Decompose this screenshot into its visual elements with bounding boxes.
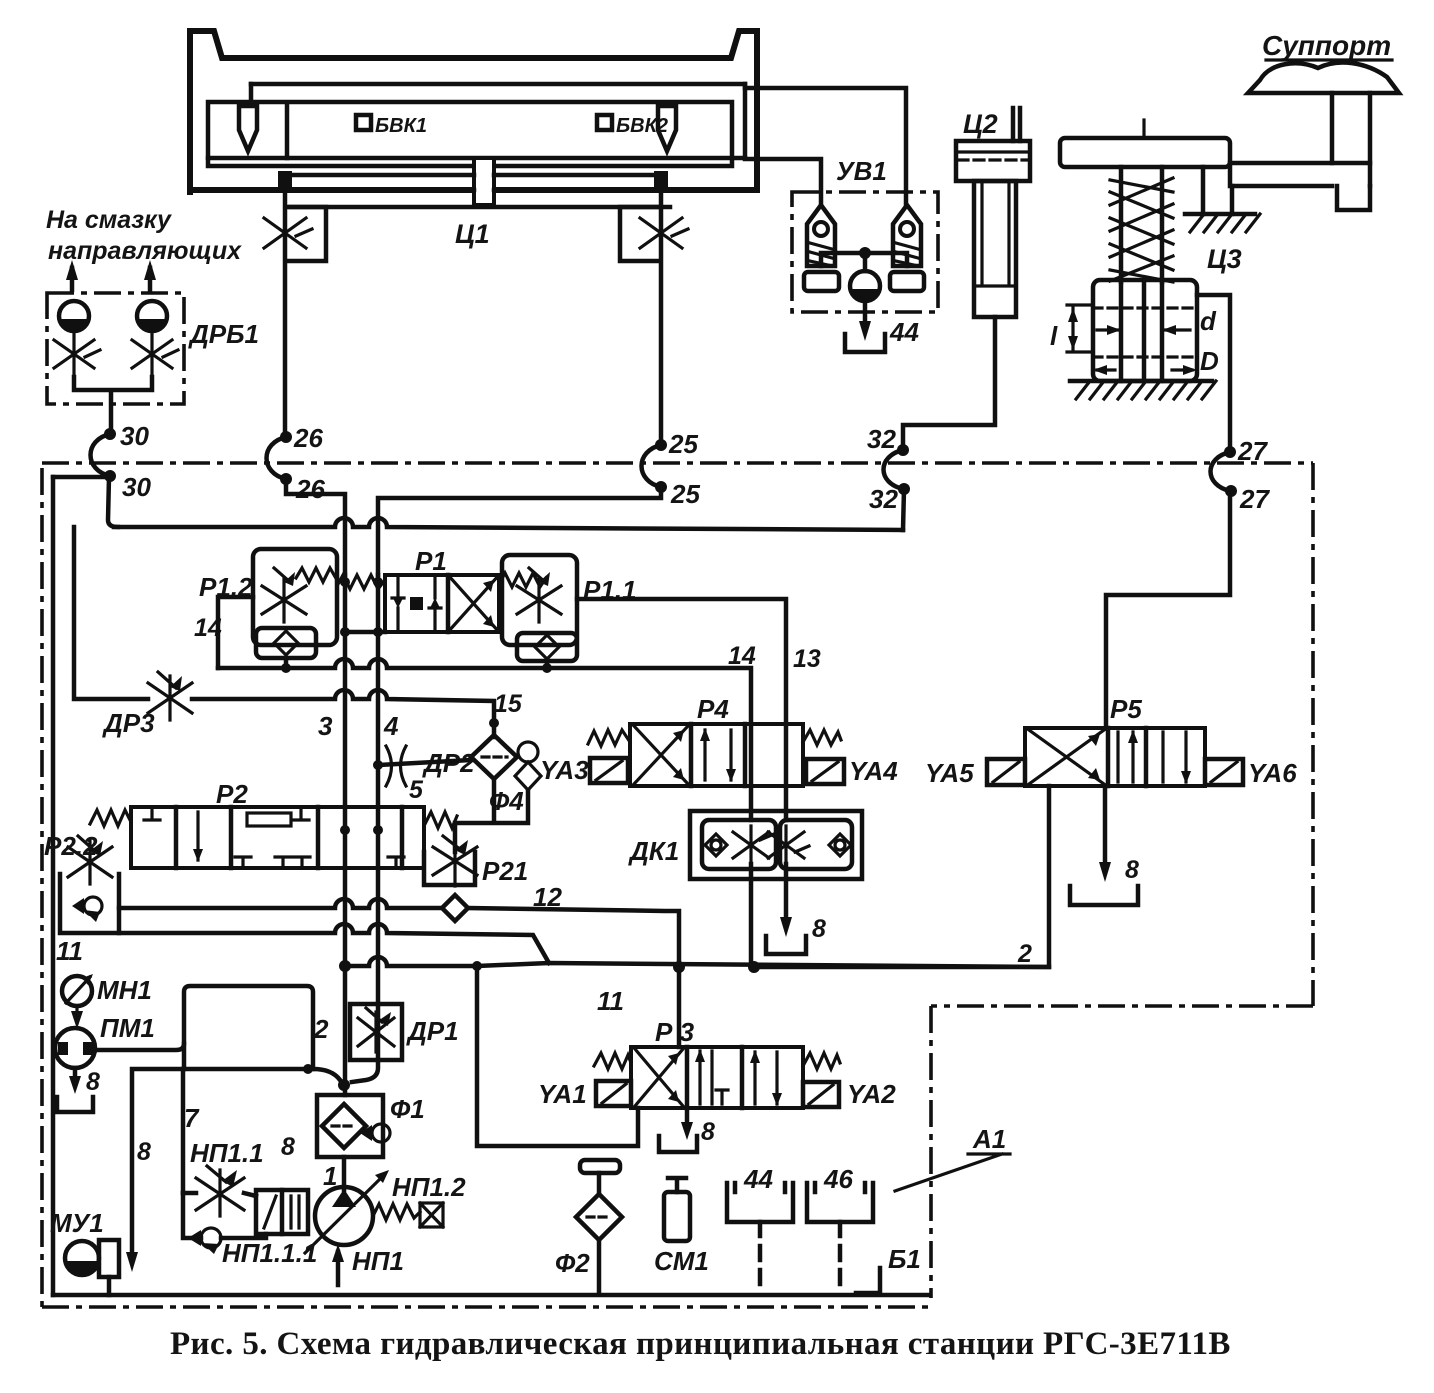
wire: node 25 to line 4 xyxy=(378,487,661,575)
УВ1 pump circle xyxy=(850,271,880,301)
cylinder inner slot rectangle xyxy=(208,84,745,166)
dashed drop from tank 46 xyxy=(838,1222,843,1293)
svg-text:БВК2: БВК2 xyxy=(616,115,668,137)
wire: check loop xyxy=(183,1193,266,1238)
spring left of P1 xyxy=(337,575,385,589)
svg-text:30: 30 xyxy=(120,421,149,451)
svg-text:l: l xyxy=(1050,321,1058,351)
wire: Ц3 block to node 27 xyxy=(1197,295,1230,452)
wire: line 13 through P4 to ДК1 xyxy=(784,724,789,820)
svg-text:30: 30 xyxy=(122,472,151,502)
hose break 30 xyxy=(91,434,111,476)
svg-text:8: 8 xyxy=(701,1118,715,1146)
supporт column xyxy=(1332,93,1370,163)
lubrication point throttle right xyxy=(640,210,688,256)
wire: ДР3 line 15 with jumps xyxy=(192,690,494,737)
solenoid YA5 xyxy=(987,759,1025,785)
P1.2 spring xyxy=(296,568,337,582)
lube outlet arrow right xyxy=(148,268,153,290)
svg-text:ДР1: ДР1 xyxy=(406,1016,459,1046)
svg-text:44: 44 xyxy=(889,317,919,347)
junction dots of lines 3 and 4 at P1 spring rail xyxy=(340,577,350,587)
svg-text:Ф2: Ф2 xyxy=(555,1248,590,1278)
wire L1: P2.2 to P21 check and line 12 xyxy=(119,899,442,908)
wire 7: pilot line to НП1.1 xyxy=(181,1069,186,1193)
wire: ДР3 branch from lube main xyxy=(74,527,148,699)
ground under Ц3 block xyxy=(1070,379,1212,384)
tank port 46 xyxy=(807,1183,873,1222)
valve P4 middle section arrows xyxy=(705,730,731,780)
pump НП1 outlet triangle xyxy=(332,1189,356,1207)
ДК1 right cartridge xyxy=(780,820,852,869)
valve P4 crossed section xyxy=(634,726,688,784)
pump suction arrow xyxy=(336,1252,341,1285)
P1.1 check diamond xyxy=(535,635,559,659)
svg-text:Р4: Р4 xyxy=(697,694,729,724)
throttle under left divider xyxy=(54,331,100,377)
dash-dot boundary right vertical xyxy=(1311,463,1315,1006)
spring left of P4 xyxy=(588,730,630,746)
svg-text:4: 4 xyxy=(383,711,399,741)
svg-text:YA4: YA4 xyxy=(849,756,898,786)
svg-text:НП1.1.1: НП1.1.1 xyxy=(222,1238,317,1268)
rod end block left xyxy=(278,171,292,193)
switch БВК2 square xyxy=(597,115,612,130)
svg-text:5: 5 xyxy=(409,776,424,804)
piston of Ц1 xyxy=(474,158,494,205)
machine bed outline (table of Ц1) xyxy=(190,31,757,192)
flow divider circle right xyxy=(137,301,167,331)
ДРБ1 dash-dot enclosure xyxy=(47,293,184,404)
svg-text:Ц3: Ц3 xyxy=(1207,244,1242,274)
svg-text:Р21: Р21 xyxy=(482,856,528,886)
svg-text:Б1: Б1 xyxy=(888,1244,921,1274)
wire: P1.1 check to line 14 xyxy=(545,661,550,668)
УВ1 drain arrow to tank 44 xyxy=(863,301,868,331)
filter ДР2 diamond xyxy=(471,735,517,779)
wire L2: P2.2 drain line 11 xyxy=(119,924,549,963)
svg-text:НП1.2: НП1.2 xyxy=(392,1172,466,1202)
solenoid YA6 xyxy=(1205,759,1243,785)
tank under P3 xyxy=(659,1136,697,1152)
valve P5 right section xyxy=(1163,732,1186,782)
P2.2 check valve xyxy=(84,897,102,915)
dash-dot boundary step horizontal xyxy=(931,1004,1313,1008)
wire line 12 xyxy=(468,908,679,967)
svg-text:На смазку: На смазку xyxy=(46,206,172,234)
cylinder Ц2 cap xyxy=(956,141,1030,181)
supporт underline xyxy=(1266,58,1392,61)
ПМ1 drain arrow and tank 8 xyxy=(73,1068,78,1082)
Ц3 top plate xyxy=(1060,138,1230,167)
svg-text:26: 26 xyxy=(295,474,325,504)
throttle ДР3 xyxy=(148,672,192,720)
pressure gauge МН1 xyxy=(62,976,92,1006)
valve P3 right section arrows xyxy=(755,1052,777,1104)
piston rod left xyxy=(285,175,474,190)
svg-text:НП1.1: НП1.1 xyxy=(190,1138,264,1168)
НП1.1 valve block xyxy=(256,1190,308,1234)
caption xyxy=(170,1326,1260,1363)
dashed drop from tank 44 xyxy=(758,1222,763,1293)
wire: bed to УВ1 left element xyxy=(745,159,821,205)
wire: throttle to block xyxy=(183,1193,256,1196)
ДК1 left cartridge xyxy=(702,820,776,869)
dimension L bracket xyxy=(1067,305,1093,352)
svg-text:8: 8 xyxy=(812,915,826,943)
cylinder Ц1 barrel top line xyxy=(251,82,745,87)
throttle ДР1 in box xyxy=(350,1004,402,1060)
P21 box xyxy=(424,852,475,885)
valve P1 body xyxy=(385,575,499,632)
svg-text:Ф1: Ф1 xyxy=(390,1094,425,1124)
lube outlet arrow left xyxy=(70,268,75,290)
valve P5 crossed section xyxy=(1029,730,1104,784)
wire: node 27 to P5 P-port xyxy=(1106,491,1230,728)
cylinder Ц2 body xyxy=(974,181,1016,317)
Ц3 rod guides xyxy=(1121,167,1162,282)
P2.2 pilot box xyxy=(60,874,119,933)
filter Ф2 diamond xyxy=(576,1194,622,1240)
svg-text:2: 2 xyxy=(313,1014,329,1044)
wire: P3 drain arrow to tank 8 xyxy=(685,1108,690,1128)
wire: P5 A-port down to line 2 xyxy=(754,786,1049,967)
wire: P1.2 left port down xyxy=(218,597,253,668)
svg-text:ДР3: ДР3 xyxy=(102,708,155,738)
wire: right leg drop to junction 25 xyxy=(659,190,664,443)
slide line under bed xyxy=(290,205,670,210)
svg-text:ДРБ1: ДРБ1 xyxy=(188,319,259,349)
filter Ф2 suction pipe xyxy=(597,1240,602,1292)
valve P3 body xyxy=(631,1047,803,1108)
svg-text:Р2: Р2 xyxy=(216,779,248,809)
spring right of P2 xyxy=(424,812,457,828)
P1.1 throttle xyxy=(517,568,561,622)
svg-text:11: 11 xyxy=(56,936,83,966)
wire: ДК1 left to junction line xyxy=(749,864,754,966)
svg-text:СМ1: СМ1 xyxy=(654,1246,709,1276)
tank under P5 xyxy=(1070,886,1138,905)
cylinder Ц1 barrel bottom line xyxy=(208,156,745,161)
relief P2.2 throttle xyxy=(68,836,112,884)
svg-text:МУ1: МУ1 xyxy=(50,1208,104,1238)
spring right of P1 xyxy=(499,573,546,587)
svg-text:25: 25 xyxy=(670,479,700,509)
relief valve P1.1 body xyxy=(502,555,577,645)
УВ1 internal collector wire xyxy=(821,253,907,271)
Ц3 bracket to ground xyxy=(1203,167,1232,214)
wire: P5 drain to tank 8 xyxy=(1103,786,1108,868)
svg-text:YA6: YA6 xyxy=(1248,758,1297,788)
wire: left leg drop to junction 26 xyxy=(283,190,288,435)
hose break 25 xyxy=(642,445,662,487)
line 3 vertical main xyxy=(343,575,348,1095)
ground under Ц3 bracket xyxy=(1185,212,1255,217)
dash-dot boundary left vertical xyxy=(40,468,44,1307)
svg-text:ПМ1: ПМ1 xyxy=(100,1013,155,1043)
tank Б1 corner mark xyxy=(856,1268,880,1293)
hose break 32 xyxy=(884,450,904,489)
wire: node 30 down to lube main xyxy=(108,477,118,527)
tank 44 under УВ1 xyxy=(845,334,885,352)
left leg box xyxy=(287,207,326,261)
svg-text:Суппорт: Суппорт xyxy=(1262,30,1391,61)
svg-text:МН1: МН1 xyxy=(97,975,152,1005)
valve P5 body xyxy=(1025,728,1205,786)
tank under ДК1 xyxy=(766,936,806,954)
rod end block right xyxy=(654,171,668,193)
spring right of P3 xyxy=(803,1053,840,1069)
level gauge СМ1 xyxy=(664,1192,690,1241)
svg-text:YA3: YA3 xyxy=(540,755,589,785)
УВ1 left lubricator element xyxy=(807,205,835,266)
wire: ДК1 right to drain 8 xyxy=(784,864,789,925)
svg-text:46: 46 xyxy=(823,1164,853,1194)
wire: gauge header rectangle xyxy=(184,986,313,1069)
ДК1 left check diamond xyxy=(705,834,727,856)
svg-text:14: 14 xyxy=(728,642,756,670)
pump НП1 variable arrow xyxy=(305,1178,381,1253)
svg-text:27: 27 xyxy=(1239,484,1270,514)
flow divider circle left xyxy=(59,301,89,331)
solenoid YA1 xyxy=(596,1081,631,1106)
svg-text:БВК1: БВК1 xyxy=(375,115,427,137)
svg-text:7: 7 xyxy=(184,1103,200,1133)
ДК1 outer box xyxy=(690,811,862,879)
unloader МУ1 xyxy=(65,1241,99,1275)
wire: line 4 to ДР2 xyxy=(378,760,471,765)
wire: line 4 below ДР1 joins line 3 xyxy=(352,1060,378,1082)
НП1.2 spring and stop xyxy=(373,1204,420,1220)
solenoid YA4 xyxy=(806,759,844,784)
МН1 to ПМ1 arrow xyxy=(75,1006,78,1018)
УВ1 left outlet box xyxy=(804,272,839,291)
lubrication point throttle left xyxy=(264,210,312,256)
svg-text:Р2.2: Р2.2 xyxy=(44,831,98,861)
frame stub to node 30 xyxy=(53,475,108,480)
dash-dot boundary bottom xyxy=(42,1305,929,1309)
valve P5 middle section xyxy=(1118,732,1133,782)
main dash-dot boundary horizontal xyxy=(42,461,1313,465)
throttle under right divider xyxy=(132,331,178,377)
hose break 26 xyxy=(267,437,287,479)
throttle P21 xyxy=(433,836,477,886)
filter Ф2 strainer top xyxy=(580,1160,620,1173)
filter Ф2 stem xyxy=(597,1173,602,1194)
line 4 vertical main xyxy=(376,575,381,1004)
P1.2 check diamond xyxy=(274,631,298,655)
svg-text:26: 26 xyxy=(293,423,323,453)
wire: ДР2 and Ф4 to P21 xyxy=(455,779,528,852)
solenoid YA2 xyxy=(803,1082,839,1107)
pressure switch ПМ1 xyxy=(55,1028,95,1068)
valve P2 body xyxy=(131,807,424,868)
filter Ф1 frame xyxy=(317,1095,383,1157)
svg-text:YA1: YA1 xyxy=(538,1079,587,1109)
Ф1 bypass check xyxy=(372,1124,390,1142)
wire: Ф1 to pump НП1 xyxy=(342,1157,347,1190)
spring left of P3 xyxy=(594,1053,631,1069)
svg-text:направляющих: направляющих xyxy=(48,237,242,265)
piston rod right xyxy=(494,175,661,190)
spring right of P4 xyxy=(803,730,841,745)
ДК1 right throttle xyxy=(768,826,809,864)
dimension d arrows xyxy=(1097,328,1190,331)
wire: lube main 30-32 with jumps over lines 3 and 4 xyxy=(114,518,903,530)
svg-text:8: 8 xyxy=(281,1133,295,1161)
ДК1 left throttle xyxy=(733,826,774,864)
svg-text:8: 8 xyxy=(137,1138,151,1166)
УВ1 dash-dot enclosure xyxy=(792,192,938,312)
svg-text:32: 32 xyxy=(869,484,898,514)
supporт foot block xyxy=(1337,186,1370,210)
filter Ф1 diamond xyxy=(322,1104,366,1148)
wire line 13 from P1.1 xyxy=(577,599,786,724)
pump НП1 circle xyxy=(315,1187,373,1245)
ДРБ1 internal collector xyxy=(74,377,152,433)
valve P3 crossed section xyxy=(635,1049,683,1106)
drain line 8 left xyxy=(132,1069,184,1258)
wire: trunk to P3 P-port xyxy=(677,967,682,1047)
dimension D arrows xyxy=(1097,368,1192,371)
svg-text:D: D xyxy=(1200,346,1219,376)
svg-text:YA2: YA2 xyxy=(847,1079,896,1109)
solenoid YA3 xyxy=(590,758,628,783)
Ц3 stem xyxy=(1142,120,1145,138)
svg-text:УВ1: УВ1 xyxy=(836,156,887,186)
wire: node 26 to line 3 xyxy=(286,479,345,575)
Ц3 piston block xyxy=(1093,280,1197,381)
wire: P1.2 check to line 14 xyxy=(284,658,289,668)
valve P2 internals xyxy=(144,807,404,868)
supporт body casting xyxy=(1248,62,1399,93)
svg-text:Р 3: Р 3 xyxy=(655,1017,695,1047)
solid station frame left vertical xyxy=(51,477,56,1295)
hose break 27 xyxy=(1211,452,1231,491)
svg-text:А1: А1 xyxy=(972,1124,1006,1154)
svg-text:25: 25 xyxy=(668,429,698,459)
svg-text:ДК1: ДК1 xyxy=(628,836,679,866)
svg-text:2: 2 xyxy=(1017,940,1032,968)
valve P1 check section internals xyxy=(392,578,441,629)
svg-text:Ц2: Ц2 xyxy=(963,109,998,139)
svg-text:d: d xyxy=(1200,306,1217,336)
УВ1 right outlet box xyxy=(890,272,924,291)
svg-text:НП1: НП1 xyxy=(352,1246,404,1276)
svg-text:11: 11 xyxy=(597,986,624,1016)
wire: ПМ1 sensing line xyxy=(95,1044,184,1050)
relief valve P1.2 body xyxy=(253,549,337,645)
switch БВК1 square xyxy=(356,115,371,130)
svg-text:15: 15 xyxy=(494,690,523,718)
svg-text:32: 32 xyxy=(867,424,896,454)
spring left of P2 xyxy=(90,810,131,826)
cylinder Ц2 top rod xyxy=(1013,108,1020,141)
P21 check diamond on line 12 xyxy=(442,895,468,921)
P1.2 check box xyxy=(256,628,316,658)
wire trunk line at y966 xyxy=(345,957,1049,967)
valve P1 crossed section xyxy=(448,575,499,632)
valve P3 middle section xyxy=(700,1051,728,1104)
svg-text:Р5: Р5 xyxy=(1110,694,1142,724)
dash-dot boundary step vertical xyxy=(929,1006,933,1298)
wire: node 32 up to Ц2 xyxy=(903,317,995,450)
Ц3 spring coil xyxy=(1110,178,1173,282)
wire: bed to УВ1 right element xyxy=(745,88,906,205)
right leg box xyxy=(620,207,659,261)
tank port 44 xyxy=(727,1183,793,1222)
svg-text:3: 3 xyxy=(318,711,333,741)
wire line 14 horizontal with jumps xyxy=(218,659,751,724)
svg-text:13: 13 xyxy=(793,645,821,673)
wire: header to line 3 xyxy=(313,1069,340,1080)
svg-text:8: 8 xyxy=(86,1068,100,1096)
svg-text:12: 12 xyxy=(533,882,562,912)
P1.2 throttle xyxy=(262,568,306,622)
limit dog pointer left xyxy=(239,106,257,151)
УВ1 right lubricator element xyxy=(893,205,921,266)
solid station frame bottom xyxy=(53,1293,929,1298)
supporт arm xyxy=(1230,163,1370,186)
НП1.1 throttle xyxy=(196,1166,244,1216)
bed bottom edge xyxy=(190,187,757,193)
swivel joint 5 xyxy=(386,746,406,786)
svg-text:44: 44 xyxy=(743,1164,773,1194)
svg-text:Ц1: Ц1 xyxy=(455,219,490,249)
НП1.1.1 check valve xyxy=(201,1228,221,1248)
valve P4 body xyxy=(630,724,803,786)
svg-text:YA5: YA5 xyxy=(925,758,974,788)
wire: P1 bottom ports to lines 3 and 4 xyxy=(345,630,385,635)
wire loop 11 to P3 xyxy=(477,966,638,1146)
P1.1 check box xyxy=(517,633,577,661)
wire: node 32 down to lube main xyxy=(903,489,904,530)
svg-text:8: 8 xyxy=(1125,856,1139,884)
svg-text:Р1: Р1 xyxy=(415,546,447,576)
wire: line 14 through P4 to ДК1 xyxy=(749,724,754,820)
limit dog pointer right xyxy=(658,106,676,151)
ДК1 right check diamond xyxy=(829,834,851,856)
check valve Ф4 xyxy=(518,742,538,762)
